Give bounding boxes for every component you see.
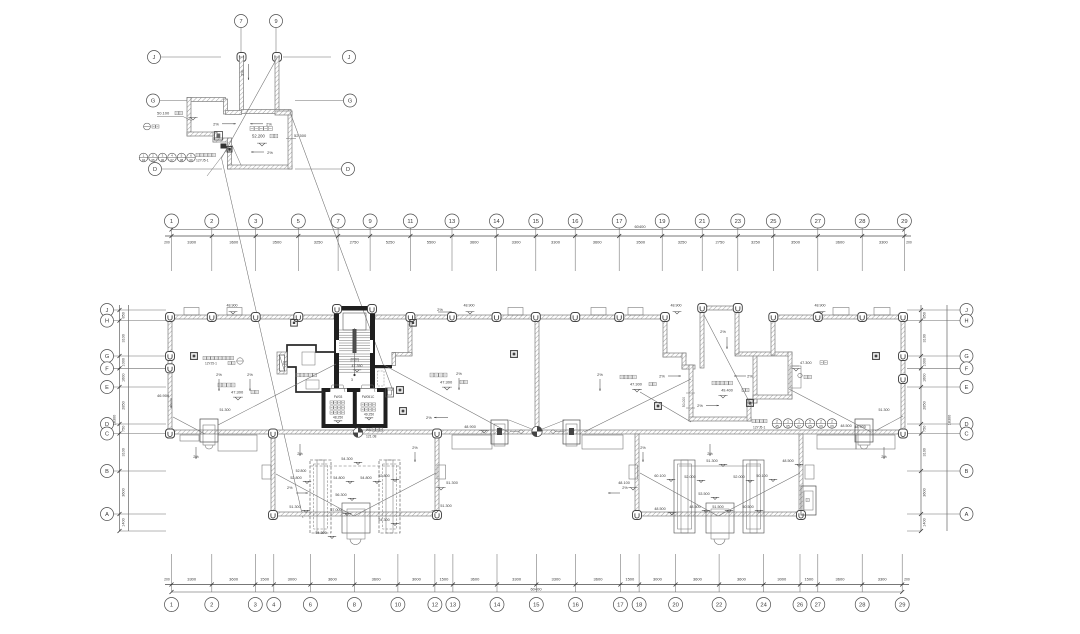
axis bubble 16 (top) [568,214,582,228]
roof texts 52.200 [250,127,254,131]
axis bubble 21 (top) [695,214,709,228]
svg-text:23: 23 [735,219,741,225]
svg-text:3300: 3300 [512,577,522,582]
axis bubble 12 (bottom) [428,598,442,612]
axis bubble 28 (top) [855,214,869,228]
svg-text:07: 07 [797,424,801,428]
svg-text:2750: 2750 [350,240,360,245]
svg-text:8: 8 [353,603,356,609]
axis bubble A (left) [101,508,114,521]
axis bubble G (roof right) [295,100,343,102]
svg-text:13: 13 [449,219,455,225]
axis bubble 28 (bottom) [855,598,869,612]
svg-text:1000: 1000 [923,358,927,366]
svg-text:56.300: 56.300 [335,493,346,497]
svg-text:47.350: 47.350 [352,364,363,368]
axis bubble D (right) [960,418,973,431]
svg-text:25: 25 [770,219,776,225]
solar equipment room [287,345,334,392]
svg-text:29: 29 [901,219,907,225]
svg-text:24: 24 [760,603,767,609]
small diagonal in roof room [232,145,241,165]
svg-text:12YJ5-1: 12YJ5-1 [205,362,217,366]
svg-text:200: 200 [164,241,170,245]
axis bubble 3 (top) [249,214,263,228]
svg-text:14: 14 [493,219,500,225]
svg-text:09: 09 [819,424,823,428]
axis bubble E (left) [101,381,114,394]
axis bubble 16 (bottom) [569,598,583,612]
elevator shaft rooms [324,390,386,426]
terrace wall f [689,417,751,421]
svg-text:54.800: 54.800 [360,476,371,480]
svg-text:16: 16 [572,603,578,609]
svg-text:2%: 2% [412,446,418,450]
svg-text:3600: 3600 [229,240,239,245]
svg-text:06: 06 [161,158,165,162]
axis bubble F (right) [960,362,973,375]
axis bubble 29 (top) [897,214,911,228]
svg-text:22: 22 [716,603,722,609]
svg-text:2%: 2% [267,150,273,155]
svg-text:3600: 3600 [593,240,603,245]
right cluster skylight wells (solid) [674,460,695,533]
svg-text:3600: 3600 [470,577,480,582]
svg-text:121.08: 121.08 [366,435,376,439]
svg-text:3600: 3600 [470,240,480,245]
right wing legend circles [752,419,755,422]
svg-text:47.300: 47.300 [800,361,812,365]
svg-text:3300: 3300 [187,577,197,582]
svg-text:52.200: 52.200 [252,134,265,139]
svg-text:27: 27 [815,603,821,609]
svg-text:2%: 2% [659,374,665,379]
svg-text:750: 750 [923,426,927,432]
svg-text:3600: 3600 [737,577,747,582]
axis bubble 10 (bottom) [391,598,405,612]
leader diagonals [218,364,336,425]
axis bubble 20 (bottom) [669,598,683,612]
svg-text:60.100: 60.100 [654,474,665,478]
svg-text:54.300: 54.300 [341,457,352,461]
left cluster left wall [271,434,275,516]
svg-text:48.900: 48.900 [227,304,238,308]
svg-text:2: 2 [831,420,833,424]
axis bubble 5 (top) [291,214,305,228]
svg-text:2%: 2% [266,122,272,127]
axis bubble D (roof left) [162,168,222,170]
svg-text:1000: 1000 [121,358,125,366]
svg-text:08: 08 [180,158,184,162]
svg-text:3100: 3100 [121,334,125,342]
svg-text:17: 17 [617,603,623,609]
svg-text:A: A [965,512,969,518]
svg-text:05: 05 [151,158,155,162]
left cluster centre stack [342,503,370,533]
svg-text:3: 3 [351,378,353,382]
axis bubble 29 (bottom) [895,598,909,612]
right-centre unit annotations [620,375,624,379]
axis bubble 26 (bottom) [793,598,807,612]
svg-text:45: 45 [775,424,779,428]
axis bubble 7 (roof) [240,28,242,52]
svg-text:52.800: 52.800 [296,469,307,473]
svg-text:60400: 60400 [634,224,646,229]
svg-text:11: 11 [407,219,413,225]
axis bubble 27 (bottom) [811,598,825,612]
svg-text:3: 3 [254,219,257,225]
svg-text:2%: 2% [456,371,462,376]
svg-text:C: C [105,432,109,438]
axis bubble 23 (top) [731,214,745,228]
svg-text:50.100: 50.100 [756,474,767,478]
svg-text:850: 850 [923,312,927,318]
svg-text:12YJ5-1: 12YJ5-1 [196,159,209,163]
terrace wall g [747,399,751,421]
svg-text:2%: 2% [247,372,253,377]
axis bubble 27 (top) [811,214,825,228]
right cluster centre stack [706,503,734,533]
svg-text:200: 200 [904,578,910,582]
axis bubble 14 (bottom) [490,598,504,612]
axis bubble 9 (top) [363,214,377,228]
railing legend circles [139,153,148,162]
svg-text:28: 28 [859,603,865,609]
leader line (to stair core) [290,112,393,391]
svg-text:G: G [105,354,109,360]
main floor plan [157,304,908,545]
axis bubble 15 (top) [529,214,543,228]
svg-text:07: 07 [170,158,174,162]
svg-text:2%: 2% [640,446,646,450]
svg-text:3600: 3600 [923,488,927,496]
svg-text:3600: 3600 [693,577,703,582]
svg-text:7: 7 [239,19,242,25]
svg-text:850: 850 [121,312,125,318]
svg-text:15: 15 [533,603,539,609]
axis bubble 13 (top) [445,214,459,228]
chimney box [215,132,223,141]
svg-text:B: B [965,469,969,475]
axis bubble 14 (top) [490,214,504,228]
svg-text:16: 16 [572,219,578,225]
svg-text:J: J [965,308,968,314]
svg-text:04: 04 [142,158,146,162]
svg-text:F: F [105,366,109,372]
svg-text:48.900: 48.900 [671,304,682,308]
svg-text:2750: 2750 [716,240,726,245]
svg-text:50.000: 50.000 [682,397,686,407]
svg-text:1600: 1600 [923,373,927,381]
svg-text:3100: 3100 [121,448,125,456]
svg-text:05: 05 [808,424,812,428]
terrace room left wall [753,352,757,403]
axis bubble G (left) [101,350,114,363]
svg-text:3: 3 [254,603,257,609]
roof plan walls [237,53,246,62]
right cluster left wall [635,434,639,516]
svg-text:3100: 3100 [923,448,927,456]
svg-text:C: C [964,432,968,438]
svg-text:2850: 2850 [121,401,125,409]
mid shaft wall 21 [700,306,704,368]
right wing left wall [771,315,775,355]
eave ledges [184,308,199,316]
axis bubble F (left) [101,362,114,375]
axis bubble 9 (roof) [275,28,277,52]
svg-text:9: 9 [368,219,371,225]
svg-text:5: 5 [297,219,300,225]
svg-text:J: J [106,308,109,314]
svg-text:48.500: 48.500 [654,507,665,511]
svg-text:2: 2 [210,219,213,225]
svg-text:12: 12 [432,603,438,609]
terrace wall b [663,353,686,357]
right outer wall [901,315,905,434]
floor drains [397,387,404,394]
axis bubble 17 (top) [612,214,626,228]
axis bubble 6 (bottom) [303,598,317,612]
svg-text:3500: 3500 [273,240,283,245]
axis bubble 17 (bottom) [613,598,627,612]
svg-text:09: 09 [189,158,193,162]
axis bubble C (right) [960,427,973,440]
svg-text:1500: 1500 [625,577,635,582]
svg-text:200: 200 [906,241,912,245]
sunken slab legend [191,353,198,360]
svg-text:48.250: 48.250 [333,416,343,420]
axis bubble 2 (bottom) [205,598,219,612]
svg-text:48.900: 48.900 [464,304,475,308]
axis bubble 11 (top) [403,214,417,228]
svg-text:20: 20 [672,603,678,609]
top wall mid shaft [700,306,739,310]
svg-text:B: B [105,469,109,475]
svg-text:3500: 3500 [636,240,646,245]
svg-text:17: 17 [616,219,622,225]
terrace room top wall [735,352,792,356]
axis bubble J (right) [960,304,973,317]
entry recess wall c [392,353,396,366]
axis bubble 3 (bottom) [248,598,262,612]
svg-text:3250: 3250 [751,240,761,245]
svg-text:3000: 3000 [777,577,787,582]
svg-text:2%: 2% [697,403,703,408]
svg-text:18300: 18300 [948,415,952,426]
svg-text:J: J [348,55,351,61]
svg-text:2%: 2% [720,329,726,334]
svg-text:51.300: 51.300 [289,505,300,509]
svg-text:46.900: 46.900 [157,393,170,398]
svg-text:05: 05 [786,424,790,428]
svg-text:3600: 3600 [372,577,382,582]
left outer wall [168,315,172,434]
svg-text:2%: 2% [622,486,628,490]
svg-text:51.300: 51.300 [220,408,231,412]
svg-text:49.250: 49.250 [364,413,374,417]
terrace room right wall [788,352,792,399]
svg-text:48.500: 48.500 [840,424,851,428]
svg-text:2%: 2% [213,122,219,127]
svg-text:54.300: 54.300 [378,518,389,522]
level 52.500 [286,138,296,140]
top wall right wing [771,315,905,319]
axis bubble C (left) [101,427,114,440]
svg-text:D: D [153,167,157,173]
svg-text:29: 29 [899,603,905,609]
svg-text:3300: 3300 [878,577,888,582]
svg-text:200: 200 [164,578,170,582]
svg-text:50.500: 50.500 [742,505,753,509]
svg-text:9: 9 [274,19,277,25]
bottom dimension string [164,554,910,612]
axis bubble B (right) [960,465,973,478]
svg-text:2%: 2% [597,372,603,377]
mid shaft wall 23 [735,306,739,354]
svg-text:15: 15 [533,219,539,225]
svg-text:3000: 3000 [288,577,298,582]
axis bubble D (left) [101,418,114,431]
svg-text:51.300: 51.300 [440,504,451,508]
svg-text:1: 1 [787,420,789,424]
axis bubble E (right) [960,381,973,394]
svg-text:3600: 3600 [328,577,338,582]
gas inlet symbol [353,428,363,438]
axis bubble D (roof right) [295,168,343,170]
top dimension string [164,214,912,271]
axis bubble J (left) [101,304,114,317]
svg-text:3300: 3300 [512,240,522,245]
svg-text:50.100: 50.100 [157,111,170,116]
svg-text:53.500: 53.500 [698,492,709,496]
terrace wall d [682,365,695,369]
svg-text:1400: 1400 [923,518,927,526]
svg-text:27: 27 [815,219,821,225]
svg-text:13: 13 [450,603,456,609]
svg-text:3250: 3250 [678,240,688,245]
svg-text:G: G [964,354,968,360]
svg-text:A: A [105,512,109,518]
svg-text:1500: 1500 [439,577,449,582]
axis bubble H (right) [960,314,973,327]
svg-text:18: 18 [636,603,642,609]
svg-text:47.300: 47.300 [630,382,643,387]
axis bubble G (right) [960,350,973,363]
svg-text:3000: 3000 [653,577,663,582]
svg-text:51.300: 51.300 [446,481,458,485]
svg-text:2850: 2850 [923,401,927,409]
svg-text:H: H [105,319,109,325]
axis bubble 4 (bottom) [267,598,281,612]
terrace wall h [747,399,757,403]
svg-text:1: 1 [798,420,800,424]
entry recess wall b [392,353,412,357]
axis bubble 24 (bottom) [757,598,771,612]
svg-text:51.300: 51.300 [706,459,717,463]
svg-text:1: 1 [170,219,173,225]
small roof plan (stair bulkhead) [139,15,393,519]
svg-text:1500: 1500 [260,577,270,582]
axis bubble 2 (top) [205,214,219,228]
axis bubble 13 (bottom) [446,598,460,612]
svg-text:48.500: 48.500 [782,459,793,463]
axis bubble J (roof left) [161,56,221,58]
svg-text:E: E [105,385,109,391]
svg-text:E: E [965,385,969,391]
svg-text:2%: 2% [747,374,753,379]
bottom wall [168,430,905,434]
svg-text:18300: 18300 [113,415,117,426]
svg-text:J: J [153,55,156,61]
column marks [166,313,175,322]
rain pipe symbol at divider base [532,426,542,436]
left cluster bottom wall [271,512,439,516]
svg-text:5500: 5500 [427,240,437,245]
axis bubble 8 (bottom) [347,598,361,612]
axis bubble 7 (top) [331,214,345,228]
svg-text:3600: 3600 [836,577,846,582]
left cluster skylight wells (dashed) [310,460,331,533]
svg-text:2%: 2% [216,372,222,377]
svg-text:2: 2 [820,420,822,424]
svg-text:3300: 3300 [187,240,197,245]
svg-text:6: 6 [309,603,312,609]
svg-text:2%: 2% [426,415,432,420]
svg-text:21: 21 [699,219,705,225]
left-centre unit annotations [430,373,434,377]
svg-text:FW051C: FW051C [362,395,375,399]
svg-text:3600: 3600 [121,488,125,496]
svg-text:52.000: 52.000 [684,475,695,479]
svg-text:1400: 1400 [121,518,125,526]
svg-text:3600: 3600 [836,240,846,245]
svg-text:26: 26 [797,603,803,609]
svg-text:3100: 3100 [923,334,927,342]
svg-text:W5: W5 [366,428,371,432]
svg-text:28: 28 [859,219,865,225]
svg-text:3250: 3250 [314,240,324,245]
axis bubble H (left) [101,314,114,327]
eave gutter symbol [144,123,151,130]
terrace room door [790,366,801,388]
svg-text:54.800: 54.800 [333,476,344,480]
axis bubble J (roof right) [283,56,331,58]
svg-text:51.500: 51.500 [712,505,723,509]
lower ledges [180,435,199,441]
svg-text:52.800: 52.800 [290,476,301,480]
svg-text:3300: 3300 [551,240,561,245]
axis bubble 25 (top) [766,214,780,228]
axis bubble 18 (bottom) [632,598,646,612]
svg-text:2%: 2% [287,486,293,490]
svg-text:D: D [346,167,350,173]
axis bubble B (left) [101,465,114,478]
svg-text:F: F [965,366,969,372]
svg-text:10: 10 [395,603,401,609]
svg-text:2%: 2% [437,307,443,312]
lobby top wall [373,365,392,368]
svg-text:1500: 1500 [804,577,814,582]
svg-text:12YJ5-1: 12YJ5-1 [753,426,765,430]
electrical shaft text [351,358,354,361]
svg-text:52.500: 52.500 [294,133,307,138]
axis bubble A (right) [960,508,973,521]
svg-text:2: 2 [210,603,213,609]
svg-text:3500: 3500 [791,240,801,245]
svg-text:G: G [151,99,155,105]
svg-text:51.300: 51.300 [879,408,890,412]
svg-text:750: 750 [121,426,125,432]
